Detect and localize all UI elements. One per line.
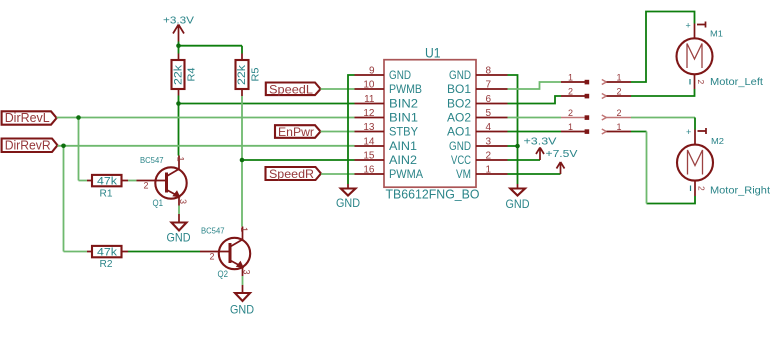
power +3.3V top xyxy=(163,16,194,42)
svg-text:2: 2 xyxy=(144,181,149,191)
svg-text:47k: 47k xyxy=(97,176,118,188)
wire net AO1 to connector xyxy=(508,131,562,133)
pin 1 VM xyxy=(456,165,508,182)
wire R2 to Q2 base xyxy=(128,251,200,253)
svg-text:3: 3 xyxy=(242,270,252,275)
svg-text:+3.3V: +3.3V xyxy=(524,137,557,148)
wire net BIN2 / Q1 collector xyxy=(179,96,355,156)
connector right pin 2 (row C) xyxy=(602,108,631,120)
svg-text:SpeedR: SpeedR xyxy=(269,167,314,181)
svg-text:22k: 22k xyxy=(173,64,185,85)
svg-text:+: + xyxy=(686,127,691,137)
pin 13 STBY xyxy=(355,122,419,139)
svg-text:5: 5 xyxy=(486,108,492,119)
svg-text:2: 2 xyxy=(616,108,621,118)
svg-text:16: 16 xyxy=(363,165,375,176)
svg-text:1: 1 xyxy=(616,73,621,83)
svg-text:3: 3 xyxy=(486,137,492,148)
svg-text:STBY: STBY xyxy=(389,125,418,139)
svg-text:BIN1: BIN1 xyxy=(389,111,418,125)
svg-text:AIN1: AIN1 xyxy=(389,139,417,153)
wire net BO1 to connector xyxy=(508,82,562,89)
connector left pin 1 (row A) xyxy=(561,73,589,85)
label SpeedL xyxy=(266,83,321,97)
svg-text:6: 6 xyxy=(486,94,492,105)
svg-text:BC547: BC547 xyxy=(140,155,164,165)
svg-text:TB6612FNG_BO: TB6612FNG_BO xyxy=(386,188,480,202)
svg-text:R1: R1 xyxy=(100,187,113,199)
wire R1 to Q1 base xyxy=(128,180,137,182)
svg-text:R4: R4 xyxy=(186,67,198,81)
svg-text:2: 2 xyxy=(568,108,573,118)
svg-text:GND: GND xyxy=(336,196,360,210)
svg-text:3: 3 xyxy=(178,199,188,204)
svg-text:BO1: BO1 xyxy=(447,82,471,96)
pin 4 AO1 xyxy=(447,122,508,139)
label DirRevR xyxy=(2,138,58,153)
svg-text:1: 1 xyxy=(486,165,492,176)
svg-text:U1: U1 xyxy=(425,46,441,61)
pin 8 GND xyxy=(449,66,508,83)
transistor Q2 xyxy=(200,226,252,281)
connector left pin 2 (row C) xyxy=(561,108,589,120)
junction +3.3V xyxy=(176,43,181,48)
svg-text:2: 2 xyxy=(210,252,215,262)
junction AIN2 xyxy=(240,158,245,163)
connector right pin 2 (row B) xyxy=(602,87,631,99)
svg-text:Motor_Left: Motor_Left xyxy=(710,77,763,88)
wire net VCC xyxy=(508,159,541,161)
svg-text:2: 2 xyxy=(696,80,706,85)
pin 12 BIN1 xyxy=(355,108,419,125)
motor M2 xyxy=(677,127,770,197)
ground Q2 xyxy=(230,285,254,317)
wire net SpeedR xyxy=(321,173,355,175)
svg-text:12: 12 xyxy=(363,108,375,119)
label DirRevL xyxy=(2,110,57,125)
svg-text:14: 14 xyxy=(363,137,375,148)
svg-text:2: 2 xyxy=(697,186,707,191)
pin 10 PWMB xyxy=(355,80,423,97)
pin 15 AIN2 xyxy=(355,151,418,168)
svg-text:BIN2: BIN2 xyxy=(389,97,418,111)
svg-text:R5: R5 xyxy=(250,67,262,81)
pin 9 GND xyxy=(355,66,412,83)
wire net VM xyxy=(508,173,561,175)
svg-text:R2: R2 xyxy=(100,258,113,270)
svg-text:BO2: BO2 xyxy=(447,97,471,111)
wire Q1 emitter xyxy=(178,206,180,215)
svg-text:10: 10 xyxy=(363,80,375,91)
connector right pin 1 (row D) xyxy=(602,122,631,134)
svg-text:1: 1 xyxy=(616,122,621,132)
svg-text:7: 7 xyxy=(486,80,492,91)
svg-text:22k: 22k xyxy=(236,64,248,85)
pin 2 VCC xyxy=(451,151,508,168)
svg-text:GND: GND xyxy=(167,230,191,244)
svg-text:GND: GND xyxy=(230,303,254,317)
svg-text:+3.3V: +3.3V xyxy=(163,16,194,27)
svg-text:9: 9 xyxy=(369,66,375,77)
pin 3 GND xyxy=(449,137,508,154)
svg-text:GND: GND xyxy=(506,197,530,211)
connector right pin 1 (row A) xyxy=(602,73,631,85)
wire net +3.3V top xyxy=(179,42,243,54)
power +7.5V xyxy=(546,149,578,174)
junction BIN2 xyxy=(176,101,181,106)
resistor R2 xyxy=(87,246,128,270)
wire net AO2 to connector xyxy=(508,117,562,119)
label EnPwr xyxy=(275,125,321,139)
svg-text:1: 1 xyxy=(176,157,186,162)
svg-text:DirRevR: DirRevR xyxy=(5,138,51,153)
svg-text:+: + xyxy=(686,21,691,31)
wire net AIN2 / Q2 collector xyxy=(242,96,355,227)
power +3.3V right xyxy=(524,137,557,161)
svg-text:AIN2: AIN2 xyxy=(389,153,417,167)
pin 6 BO2 xyxy=(447,94,508,111)
svg-text:13: 13 xyxy=(363,122,375,133)
svg-text:SpeedL: SpeedL xyxy=(269,83,313,97)
svg-text:Motor_Right: Motor_Right xyxy=(710,186,770,197)
resistor R5 xyxy=(236,54,262,97)
svg-text:Q1: Q1 xyxy=(153,198,164,209)
svg-text:BC547: BC547 xyxy=(201,226,225,236)
svg-text:11: 11 xyxy=(364,94,375,105)
resistor R4 xyxy=(172,54,198,96)
motor M1 xyxy=(677,21,764,90)
wire net M1 minus xyxy=(631,89,695,96)
pin 7 BO1 xyxy=(447,80,508,97)
wire net DirRevL xyxy=(57,118,355,181)
ground U1 left xyxy=(336,184,360,210)
connector left pin 2 (row B) xyxy=(561,87,589,99)
svg-text:EnPwr: EnPwr xyxy=(278,125,314,139)
wire net GND left (pin 9) xyxy=(348,75,355,184)
wire net BO2 to connector xyxy=(508,96,562,104)
svg-text:2: 2 xyxy=(486,151,492,162)
svg-text:VM: VM xyxy=(456,167,471,181)
svg-text:Q2: Q2 xyxy=(218,269,229,280)
transistor Q1 xyxy=(137,155,189,209)
wire net M2 plus xyxy=(631,118,695,130)
label SpeedR xyxy=(266,167,322,181)
svg-text:GND: GND xyxy=(389,68,411,82)
ground U1 right xyxy=(506,184,530,211)
svg-text:1: 1 xyxy=(239,227,249,232)
wire net EnPwr xyxy=(321,131,355,133)
svg-text:M2: M2 xyxy=(711,136,724,146)
svg-text:VCC: VCC xyxy=(451,153,471,167)
svg-text:+7.5V: +7.5V xyxy=(546,149,578,160)
svg-text:AO1: AO1 xyxy=(447,125,471,139)
svg-text:2: 2 xyxy=(616,87,621,97)
svg-text:GND: GND xyxy=(449,68,471,82)
svg-text:PWMA: PWMA xyxy=(389,167,423,181)
svg-text:15: 15 xyxy=(363,151,375,162)
wire net DirRevR xyxy=(58,146,355,252)
svg-text:8: 8 xyxy=(486,66,492,77)
svg-text:1: 1 xyxy=(568,73,573,83)
svg-text:2: 2 xyxy=(568,87,573,97)
junction GND right xyxy=(515,144,520,149)
wire net GND right (pin 8) xyxy=(508,75,518,184)
pin 5 AO2 xyxy=(447,108,508,125)
svg-text:DirRevL: DirRevL xyxy=(5,110,50,125)
svg-text:4: 4 xyxy=(486,122,492,133)
connector left pin 1 (row D) xyxy=(561,122,589,134)
wire net M1 plus xyxy=(631,12,695,83)
junction DirRevL xyxy=(76,115,81,120)
svg-text:M1: M1 xyxy=(710,29,723,39)
svg-text:1: 1 xyxy=(568,122,573,132)
svg-text:PWMB: PWMB xyxy=(389,82,422,96)
svg-text:47k: 47k xyxy=(97,247,118,259)
pin 11 BIN2 xyxy=(355,94,419,111)
svg-text:GND: GND xyxy=(449,139,471,153)
junction DirRevR xyxy=(61,144,66,149)
pin 14 AIN1 xyxy=(355,137,418,154)
wire Q2 emitter xyxy=(242,276,244,285)
svg-text:AO2: AO2 xyxy=(447,111,471,125)
resistor R1 xyxy=(87,175,128,200)
pin 16 PWMA xyxy=(355,165,424,182)
wire net M2 minus xyxy=(631,132,695,204)
ground Q1 xyxy=(167,214,191,244)
wire net SpeedL xyxy=(321,88,355,90)
IC U1 TB6612FNG_BO xyxy=(384,46,480,202)
